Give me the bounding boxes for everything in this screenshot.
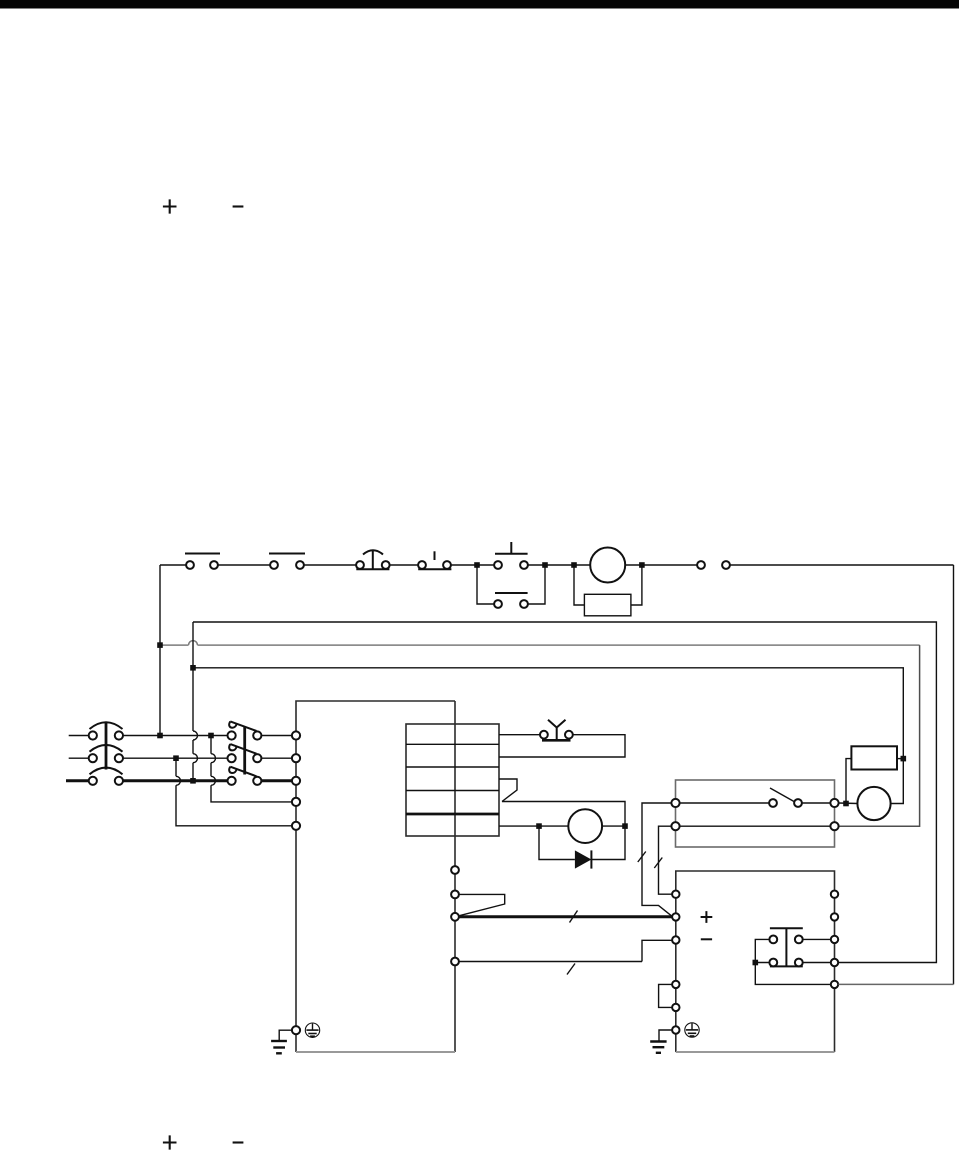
resistor R2 <box>851 746 897 769</box>
wire L2 tap to U1 terminal 5 with hop <box>176 758 292 826</box>
U2 right terminal c3 <box>831 936 838 943</box>
U1 terminal 5 <box>292 822 300 830</box>
wire K3-L1 down to U2 plus <box>638 803 672 916</box>
NO pushbutton S4 <box>418 551 451 569</box>
wire node up to resistor R2 <box>846 759 851 804</box>
motor M1 <box>568 809 602 843</box>
DPST switch S9 <box>769 928 802 966</box>
node L3 tap x=193 <box>190 778 196 784</box>
bus wire C (phase3 drop tap to blower motor) <box>193 668 903 804</box>
node rail-A <box>474 562 480 568</box>
K3 terminal L1 <box>671 799 679 807</box>
node blower left <box>843 801 849 807</box>
U2 left terminal 6 PE <box>672 1026 679 1033</box>
K3 terminal L2 <box>671 822 679 830</box>
battery polarity label minus (top) <box>233 205 244 207</box>
disconnect switch Q1 pole 3 <box>89 768 123 785</box>
contactor K1 contact pole 2 <box>228 744 262 762</box>
NC contact S2 <box>269 554 305 569</box>
U1 right terminal r3 <box>451 913 459 921</box>
polarity label minus (U2) <box>701 938 712 940</box>
node M1 left <box>536 823 542 829</box>
contactor coil K1 <box>590 548 625 583</box>
wire row4 to node D1 <box>502 802 625 827</box>
U2 left terminal 1 <box>672 891 679 898</box>
overload blade contact inside U1 <box>459 894 505 915</box>
U1 right terminal r1 <box>451 866 459 874</box>
NC pushbutton S5b parallel branch <box>477 565 545 608</box>
wire L1 tap to U1 terminal 4 with hops <box>211 736 292 802</box>
header bar <box>0 0 959 9</box>
K3 internal wire row top <box>680 802 770 804</box>
wire S9 pole2 right <box>803 962 831 964</box>
U2 right terminal c4 <box>831 959 838 966</box>
disconnect switch Q1 pole 1 <box>89 722 123 739</box>
control rail wire segments <box>160 564 954 566</box>
row1 switch S7 wire <box>499 734 540 736</box>
wire L1 drop from rail <box>159 565 161 736</box>
PE symbol U1 <box>305 1023 319 1037</box>
node bus-C tap <box>190 665 196 671</box>
U1 right terminal r4 <box>451 958 459 966</box>
node L2 tap x=176 <box>173 755 179 761</box>
switch S7 with actuator <box>540 720 573 741</box>
PE symbol U2 <box>685 1023 699 1037</box>
battery polarity label plus (top) <box>163 199 177 213</box>
polarity label plus (U2) <box>701 911 713 923</box>
wire U2-c5 to rail return <box>838 983 953 985</box>
node R2 right <box>901 756 907 762</box>
row3 blade contact <box>499 779 517 802</box>
U2 left terminal 5 <box>672 1004 679 1011</box>
wire row5 to motor M1 <box>499 825 568 827</box>
K3 right terminal R1 <box>830 799 838 807</box>
NO pushbutton S5a <box>494 542 528 569</box>
wire U1 PE to ground <box>279 1030 292 1041</box>
U1 right terminal r2 <box>451 891 459 899</box>
U1 terminal 3 <box>292 777 300 785</box>
K3 right terminal R2 <box>830 822 838 830</box>
wire U1 to U2 minus <box>459 940 672 974</box>
wire U2 PE to ground <box>659 1030 672 1042</box>
K3 internal wire to right terminal <box>802 802 830 804</box>
controller box U1 <box>296 701 455 1052</box>
bus wire B gray (rail drop to K3 right) <box>160 641 920 827</box>
diode D1 bypass <box>539 826 625 869</box>
jumper U2 terminals 4-5 <box>659 984 672 1007</box>
emergency stop pushbutton S3 <box>356 550 390 569</box>
U1 terminal 2 <box>292 754 300 762</box>
wire S9 strap down to terminal row <box>755 963 830 985</box>
battery polarity label minus (bottom) <box>233 1141 244 1143</box>
phase L2 wire <box>69 757 292 759</box>
node M1 right <box>622 823 628 829</box>
ground G2 <box>650 1042 666 1053</box>
switch S8 inside K3 <box>769 788 802 807</box>
U2 right terminal c2 <box>831 913 838 920</box>
contactor K1 mechanical link <box>243 727 246 775</box>
U1 terminal 4 <box>292 798 300 806</box>
terminal block TB1 on U1 edge <box>406 724 499 836</box>
node rail-C <box>571 562 577 568</box>
bold wire U1 to U2 plus <box>459 911 672 923</box>
U2 left terminal 3 minus <box>672 936 679 943</box>
contactor K1 contact pole 3 <box>228 767 262 785</box>
wire rail right drop <box>953 565 955 984</box>
node rail-B <box>542 562 548 568</box>
U2 left terminal 4 <box>672 981 679 988</box>
bus wire A (phase3 to U2 right) <box>193 622 936 963</box>
power supply box U2 <box>676 871 835 1052</box>
phase L1 wire <box>69 735 292 737</box>
U1 PE terminal <box>292 1026 300 1034</box>
node L1 tap x=211 <box>208 733 214 739</box>
battery polarity label plus (bottom) <box>163 1135 177 1149</box>
node S9 strap <box>753 960 759 966</box>
contactor K1 contact pole 1 <box>228 721 262 739</box>
NO contact S6 <box>697 561 730 569</box>
disconnect switch Q1 pole 2 <box>89 745 123 762</box>
node rail-D <box>639 562 645 568</box>
relay box K3 <box>676 780 835 847</box>
wire S9 left strap <box>755 939 769 962</box>
NC contact S1 <box>185 554 220 569</box>
disconnect switch Q1 mechanical link <box>105 722 108 770</box>
wire S7 return to row2 <box>499 735 625 757</box>
K3 internal through wire row bottom <box>680 825 831 827</box>
wire phase3 drop x=193 with hops <box>193 622 198 781</box>
U2 right terminal c1 <box>831 891 838 898</box>
wire K3-R1 to blower node <box>839 802 858 805</box>
resistor R1 across coil <box>574 565 642 616</box>
U1 terminal 1 <box>292 731 300 739</box>
phase L3 wire (bold) <box>66 779 292 782</box>
wire R2 to bus C <box>897 758 903 760</box>
node bus-B tap <box>157 642 163 648</box>
node L1 rail-drop junction <box>157 733 163 739</box>
wire S9 pole1 right <box>803 938 831 940</box>
blower motor M2 <box>857 787 890 820</box>
U2 left terminal 2 plus <box>672 913 679 920</box>
U2 right terminal c5 <box>831 981 838 988</box>
wire K3-L2 down to U2 terminal 1 <box>654 826 672 894</box>
wire M1 right <box>602 825 625 827</box>
ground G1 <box>271 1041 287 1053</box>
